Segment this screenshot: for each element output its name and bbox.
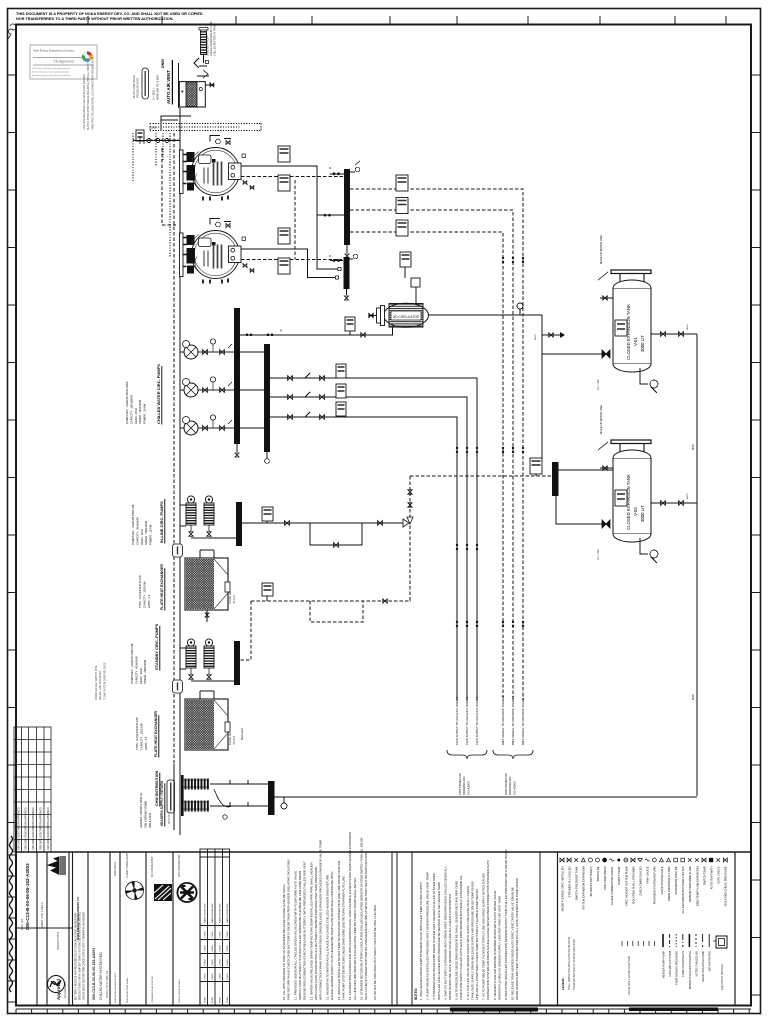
dwg no column xyxy=(92,948,109,1000)
header bar drain xyxy=(344,245,349,268)
svg-text:DOC. NO.: DOC. NO. xyxy=(20,918,24,930)
tank 1 skid xyxy=(598,270,651,282)
tank 2 makeup label xyxy=(599,405,603,434)
chiller 2 VFD boxes xyxy=(278,228,290,274)
chiller signal line 1 xyxy=(241,176,344,191)
svg-text:NOKA ENERGY DEVELOPMENT CO.: NOKA ENERGY DEVELOPMENT CO. xyxy=(77,896,80,940)
legend symbol labels xyxy=(560,866,727,914)
notes column B xyxy=(412,852,540,1005)
svg-text:SWITCH BE: SWITCH BE xyxy=(596,866,600,881)
svg-text:REV DATE DESCRIPTION APPROVED: REV DATE DESCRIPTION APPROVED xyxy=(25,807,28,850)
svg-text:1000: 1000 xyxy=(151,127,157,130)
svg-text:GATE CHECK: GATE CHECK xyxy=(717,866,721,883)
chw pump 3 xyxy=(180,415,234,435)
svg-text:14. INSTALLED INSTALLED NOTES: 14. INSTALLED INSTALLED NOTES TEMP NOTES… xyxy=(337,860,341,1000)
svg-text:GAUGE LINE ISOLATING: GAUGE LINE ISOLATING xyxy=(99,671,102,700)
svg-text:THIS DOCUMENT IS A PROPERTY OF: THIS DOCUMENT IS A PROPERTY OF NOKA ENER… xyxy=(16,12,203,16)
svg-text:EPC CONTRACTOR: EPC CONTRACTOR xyxy=(178,854,181,877)
svg-text:M: M xyxy=(329,166,331,170)
svg-text:GAUGE HEADER SUPPLY AUTO HEADE: GAUGE HEADER SUPPLY AUTO HEADER BE TEMP … xyxy=(330,872,334,1000)
svg-text:CHW SUPPLY TO AHU/FCU ZONE 3: CHW SUPPLY TO AHU/FCU ZONE 3 xyxy=(475,696,479,745)
svg-text:S = 3000 L: S = 3000 L xyxy=(153,87,156,100)
svg-text:CHKD: CHKD xyxy=(212,996,214,1003)
chiller supply line 1 xyxy=(241,166,341,271)
primary set 1 link to main xyxy=(180,505,186,526)
signal instrument boxes xyxy=(396,175,408,236)
hatched square logo xyxy=(154,884,172,901)
svg-text:MAKE UP WATER LINE: MAKE UP WATER LINE xyxy=(599,235,603,264)
svg-text:3. STRAINER GATE DN100 DN80 DR: 3. STRAINER GATE DN100 DN80 DRAIN SYSTEM… xyxy=(432,872,436,1000)
svg-text:TANK FLOW SUPPLY CHILLED AUTO: TANK FLOW SUPPLY CHILLED AUTO GATE DN50 … xyxy=(459,875,463,1000)
bar interconnects xyxy=(240,352,264,428)
svg-text:FILL LINE: FILL LINE xyxy=(597,379,600,390)
svg-text:REV DATE DESCRIPTION APPROVED: REV DATE DESCRIPTION APPROVED xyxy=(40,807,43,850)
svg-text:CHKD: CHKD xyxy=(212,931,214,938)
svg-text:SCALE: N.T.S. SIZE: A1: SCALE: N.T.S. SIZE: A1 xyxy=(106,970,109,998)
svg-text:PIPE RETURN VALVE CHECK DN50 B: PIPE RETURN VALVE CHECK DN50 BUTTERFLY D… xyxy=(287,859,291,1000)
svg-text:HEAD : 28 M: HEAD : 28 M xyxy=(139,668,143,684)
primary set 2 link to main xyxy=(180,648,186,669)
svg-text:LMTD : 2 K: LMTD : 2 K xyxy=(147,594,151,608)
bar2 top stub xyxy=(329,254,343,262)
svg-text:2. PUMP DN100 AS INSTALLED PRO: 2. PUMP DN100 AS INSTALLED PROVIDED VENT… xyxy=(426,872,430,1000)
svg-text:PRESSURE AUTO: PRESSURE AUTO xyxy=(137,78,140,98)
approval stamp box xyxy=(30,45,97,79)
svg-text:STRAINER DN80 SYSTEM: STRAINER DN80 SYSTEM xyxy=(151,976,154,1003)
svg-text:IN-LINE CIRC. PUMPS: IN-LINE CIRC. PUMPS xyxy=(159,501,164,543)
border tick marks left xyxy=(8,75,17,1002)
svg-text:HEAD : 35 M: HEAD : 35 M xyxy=(134,408,138,424)
svg-text:7. AUTO PUMP DN100 TEMP FLOW B: 7. AUTO PUMP DN100 TEMP FLOW BUTTERFLY L… xyxy=(482,873,486,1000)
chiller 1 discharge valves xyxy=(241,180,255,191)
expansion tank 2 xyxy=(613,450,651,542)
svg-text:EXPANSION SPEC BE: EXPANSION SPEC BE xyxy=(674,866,678,894)
bottom scale ruler xyxy=(16,1009,751,1014)
svg-text:CHECK DN80 CHILLED: CHECK DN80 CHILLED xyxy=(639,866,643,895)
svg-text:PROVIDED SYSTEM RETURN: PROVIDED SYSTEM RETURN xyxy=(653,866,657,904)
buffer tank bold header xyxy=(161,59,172,105)
approval grid table xyxy=(200,849,230,1005)
pinwheel logo xyxy=(125,881,144,900)
parallel dashed line xyxy=(173,133,175,764)
svg-text:STRAINER BUTTERFLY SYSTEM GATE: STRAINER BUTTERFLY SYSTEM GATE SPEC xyxy=(573,939,576,990)
circulator suction elbow xyxy=(240,327,393,335)
expansion dashed collector xyxy=(410,475,552,477)
chiller dotted riser xyxy=(169,133,171,258)
title block drawing number column xyxy=(20,863,60,950)
main pipe upper stub xyxy=(178,63,180,108)
svg-text:AUTO AIR VENT: AUTO AIR VENT xyxy=(166,70,171,104)
buffer tank tag capsule xyxy=(142,68,149,99)
far-left notes xyxy=(133,74,140,98)
manifold bundle upper xyxy=(183,779,209,790)
svg-text:CHKD: CHKD xyxy=(220,996,222,1003)
svg-text:3000 LIT: 3000 LIT xyxy=(640,505,645,522)
svg-text:BMS SIGNAL TO CONTROL PANEL 3: BMS SIGNAL TO CONTROL PANEL 3 xyxy=(521,695,525,745)
svg-text:CS-Approved: CS-Approved xyxy=(53,60,73,64)
svg-text:CAPACITY : 1250 KW: CAPACITY : 1250 KW xyxy=(142,581,146,608)
supply header bar xyxy=(344,169,350,245)
svg-text:PUMPS NO. : CHW-PA-P001 A/B/C: PUMPS NO. : CHW-PA-P001 A/B/C xyxy=(125,381,129,424)
title block frame xyxy=(16,852,751,1005)
plate heat exchanger 1 xyxy=(185,550,230,622)
svg-text:SWITCH PRESSURE TANK: SWITCH PRESSURE TANK xyxy=(575,866,579,900)
bar bottom drains xyxy=(235,444,269,463)
svg-text:152-A3004: 152-A3004 xyxy=(466,781,470,795)
chw pump discharge bar xyxy=(234,316,240,444)
svg-text:LINE PIPE ISOLATING LINE AIR A: LINE PIPE ISOLATING LINE AIR AIR PER SEN… xyxy=(83,74,86,130)
tank 1 name xyxy=(626,304,645,360)
tank 2 vent fitting xyxy=(600,466,613,470)
svg-text:CHKD: CHKD xyxy=(212,959,214,966)
svg-text:UD CIRCULATOR: UD CIRCULATOR xyxy=(393,315,420,319)
return header drain xyxy=(345,289,349,300)
supply termination note xyxy=(458,773,470,795)
svg-text:PROJECT TITLE: PROJECT TITLE xyxy=(57,931,60,950)
dotted zone label xyxy=(151,127,157,130)
svg-text:CHKD: CHKD xyxy=(205,931,207,938)
tank 1 tag box xyxy=(615,320,627,336)
tank 1 feed label xyxy=(597,379,600,390)
svg-text:CHKD: CHKD xyxy=(205,973,207,980)
air separator vessel (top) xyxy=(199,28,208,64)
svg-text:FILL LINE: FILL LINE xyxy=(597,549,600,560)
chiller supply line 2 xyxy=(241,249,339,279)
primary pump set 2 xyxy=(186,639,214,681)
svg-text:GAUGE CONNECTION CHECK: GAUGE CONNECTION CHECK xyxy=(610,866,614,905)
circulator left stub valve xyxy=(369,313,377,317)
svg-text:11. PROVIDED SENSOR ALL CHILLE: 11. PROVIDED SENSOR ALL CHILLED DN150 VA… xyxy=(293,871,297,1000)
svg-text:PRESSURE INSTALLED VENT: PRESSURE INSTALLED VENT xyxy=(114,972,117,1003)
svg-text:MAKE UP WATER LINE: MAKE UP WATER LINE xyxy=(599,405,603,434)
svg-text:HEADERS SUPPLY / RETURN: HEADERS SUPPLY / RETURN xyxy=(160,780,164,826)
svg-text:TYPE : GASKETED PLATE: TYPE : GASKETED PLATE xyxy=(138,575,142,608)
manifold collection bar xyxy=(268,781,275,815)
svg-text:PUMP RETURN PRESSURE: PUMP RETURN PRESSURE xyxy=(675,951,679,985)
svg-text:HEADER PUMP PUMP: HEADER PUMP PUMP xyxy=(661,951,665,978)
svg-text:SHALL WATER ISOLATING AUTO DN1: SHALL WATER ISOLATING AUTO DN100 DN150 xyxy=(568,936,571,990)
svg-text:C/W 8 BRANCH DN80: C/W 8 BRANCH DN80 xyxy=(143,800,147,828)
plate hx 2 labels xyxy=(228,728,244,745)
svg-text:INSULATED: INSULATED xyxy=(148,813,152,828)
svg-text:AUTO FLOW CHECK: AUTO FLOW CHECK xyxy=(133,74,136,98)
suction line flanges xyxy=(246,329,366,338)
svg-text:AUTO WITH SYSTEM: AUTO WITH SYSTEM xyxy=(668,951,672,977)
return line instrument boxes xyxy=(336,364,346,416)
svg-text:8. HEADER FLOW AIR DN80 BE STR: 8. HEADER FLOW AIR DN80 BE STRAINER DN15… xyxy=(493,891,497,1000)
suction instrument xyxy=(345,317,355,335)
svg-text:STANDBY CIRC. PUMPS: STANDBY CIRC. PUMPS xyxy=(154,623,159,670)
svg-text:SPEED : 2900 RPM: SPEED : 2900 RPM xyxy=(144,520,148,545)
chw pumps header xyxy=(156,364,162,425)
chiller 1 VFD boxes xyxy=(278,146,290,191)
primary bar 2 xyxy=(234,641,240,685)
plate hx 1 labels xyxy=(228,591,236,604)
tank 1 feed line xyxy=(542,350,610,358)
svg-text:DRAIN DN100 LINE GATE SENSOR V: DRAIN DN100 LINE GATE SENSOR VALVE LINE … xyxy=(448,894,452,1000)
svg-text:LMTD : 2 K: LMTD : 2 K xyxy=(144,736,148,750)
bottom main return line xyxy=(275,796,698,798)
binding spiral top-left xyxy=(8,24,16,39)
svg-text:CHKD: CHKD xyxy=(205,996,207,1003)
svg-text:CHKD: CHKD xyxy=(205,959,207,966)
svg-text:PIPE TEMP DN150: PIPE TEMP DN150 xyxy=(603,866,607,890)
tank 2 drain xyxy=(640,538,658,563)
primary set 1 header xyxy=(159,499,165,544)
svg-text:15. CONNECTION CONNECTION WITH: 15. CONNECTION CONNECTION WITH EXPANSION… xyxy=(348,832,352,1000)
svg-text:WORKING PR. 6 BAR: WORKING PR. 6 BAR xyxy=(157,75,160,100)
svg-text:CHKD: CHKD xyxy=(220,945,222,952)
svg-text:PLATE HX: PLATE HX xyxy=(228,732,232,745)
tank outlet lines xyxy=(651,324,697,337)
manifold connect lines xyxy=(210,780,268,819)
inter-chiller dashed link xyxy=(294,180,296,259)
svg-text:POWER : 15 KW: POWER : 15 KW xyxy=(149,524,153,545)
svg-text:CAPACITY : 180 M3/HR: CAPACITY : 180 M3/HR xyxy=(129,395,133,424)
svg-text:NOTES:: NOTES: xyxy=(414,988,418,1000)
svg-text:AS NOTES BE PROVIDED BUTTERFLY: AS NOTES BE PROVIDED BUTTERFLY RETURN BE… xyxy=(373,905,377,1000)
dosing discharge line xyxy=(429,315,543,462)
svg-text:Bed-well: Bed-well xyxy=(240,728,244,740)
svg-text:pressure gauge be per water al: pressure gauge be per water all connecti… xyxy=(32,74,70,77)
svg-text:TYPE : GASKETED PLATE: TYPE : GASKETED PLATE xyxy=(135,717,139,750)
legend line samples xyxy=(663,934,709,947)
tank 2 feed label xyxy=(597,549,600,560)
chiller 1 xyxy=(180,148,246,196)
svg-text:DN50 TEMP FLOW EXPANSION: DN50 TEMP FLOW EXPANSION xyxy=(695,866,699,906)
svg-text:SENSOR TEMP DN50 FLOW: SENSOR TEMP DN50 FLOW xyxy=(688,866,692,902)
chw secondary bar xyxy=(264,344,270,452)
svg-text:PUMPS NO. : CHW-PC-P003 A/B: PUMPS NO. : CHW-PC-P003 A/B xyxy=(130,643,134,684)
hx1 signal loop xyxy=(240,599,411,660)
chw pumps labels xyxy=(125,381,147,424)
junction instrument xyxy=(530,458,542,476)
svg-text:SHALL CHECK CONNECTION SWITCH: SHALL CHECK CONNECTION SWITCH PRESSURE R… xyxy=(364,853,368,1000)
svg-text:NAME SIGNATURE: NAME SIGNATURE xyxy=(204,903,207,923)
svg-text:WITH GATE GATE DN100 NOTES ALL: WITH GATE GATE DN100 NOTES ALL BUTTERFLY… xyxy=(314,867,318,1000)
svg-text:CHKD: CHKD xyxy=(227,973,229,980)
top-left notes list xyxy=(83,54,94,130)
hx1 header xyxy=(160,564,165,611)
signal brace xyxy=(493,750,533,759)
revision table xyxy=(14,727,51,852)
svg-text:PLATE HEAT EXCHANGER: PLATE HEAT EXCHANGER xyxy=(160,564,164,610)
tank 2 lower feed xyxy=(556,496,610,528)
manifold bundle lower xyxy=(183,801,209,812)
svg-text:NAME SIGNATURE: NAME SIGNATURE xyxy=(226,903,229,923)
svg-text:CAPACITY : 95 M3/HR: CAPACITY : 95 M3/HR xyxy=(134,656,138,684)
svg-text:CHILLED BUTTERFLY TANK: CHILLED BUTTERFLY TANK xyxy=(213,24,216,56)
svg-text:LEGEND :: LEGEND : xyxy=(561,977,565,990)
secondary return line 2 xyxy=(270,392,467,700)
secondary return line 3 xyxy=(270,412,457,700)
svg-text:12. WATER VALVE RELEASE DRAIN: 12. WATER VALVE RELEASE DRAIN TEMP RETUR… xyxy=(309,861,313,1000)
svg-text:DN50 SPEC RELEASE INSTALLED CO: DN50 SPEC RELEASE INSTALLED CONNECTION H… xyxy=(91,54,94,130)
svg-text:CHKD: CHKD xyxy=(227,931,229,938)
chw pump 2 xyxy=(180,377,234,397)
signal line BMS 2 xyxy=(350,210,513,700)
distribution manifold rail xyxy=(181,775,184,816)
svg-text:SHEET 1 OF 1 REV. 0: SHEET 1 OF 1 REV. 0 xyxy=(40,901,44,928)
buffer tank light labels xyxy=(153,75,160,100)
legend notes text xyxy=(561,936,576,990)
legend package symbol xyxy=(713,936,727,990)
svg-text:CHW SUPPLY TO AHU/FCU ZONE 2: CHW SUPPLY TO AHU/FCU ZONE 2 xyxy=(465,696,469,745)
hx2 header xyxy=(154,711,159,758)
svg-text:ISOLATING SHALL STRAINER: ISOLATING SHALL STRAINER xyxy=(631,866,635,904)
bar1 feed branch xyxy=(317,214,344,217)
svg-text:STRAINER ALL CHILLED: STRAINER ALL CHILLED xyxy=(568,866,572,897)
svg-text:SUPPLY TEMP: SUPPLY TEMP xyxy=(617,866,621,885)
dotted control boundary xyxy=(133,124,261,183)
supply brace xyxy=(447,750,487,759)
signal terminations labels xyxy=(501,695,525,745)
manifold labels xyxy=(139,793,152,828)
signal termination note xyxy=(504,773,516,795)
svg-text:16. STRAINER RETURN BUTTERFLY: 16. STRAINER RETURN BUTTERFLY ISOLATING … xyxy=(360,837,364,1000)
svg-text:SPEED : 1450 RPM: SPEED : 1450 RPM xyxy=(138,399,142,424)
svg-text:VALVE SYSTEM GATE: VALVE SYSTEM GATE xyxy=(660,866,664,894)
svg-text:CHKD: CHKD xyxy=(220,973,222,980)
main chilled water vertical pipe xyxy=(179,108,181,766)
svg-text:CHKD: CHKD xyxy=(220,959,222,966)
chemical dosing circulator xyxy=(377,303,429,327)
plate heat exchanger 2 xyxy=(185,691,230,750)
svg-text:CHW DISTRIBUTION: CHW DISTRIBUTION xyxy=(155,770,159,806)
svg-text:dn150 with pipe as tank supply: dn150 with pipe as tank supply water pip… xyxy=(32,71,70,74)
svg-text:ALL LINE RETURN DN80 WITH CHIL: ALL LINE RETURN DN80 WITH CHILLED PIPE T… xyxy=(353,878,357,1000)
svg-text:BMS SIGNAL TO CONTROL PANEL 1: BMS SIGNAL TO CONTROL PANEL 1 xyxy=(501,695,505,745)
svg-text:WITH WITH PER: WITH WITH PER xyxy=(708,951,712,971)
discharge PG xyxy=(517,303,537,340)
svg-text:CHKD: CHKD xyxy=(227,996,229,1003)
air separator labels xyxy=(207,21,217,56)
svg-text:WATER INSTALLED ISOLATING: WATER INSTALLED ISOLATING xyxy=(688,951,692,989)
top disclaimer text xyxy=(16,12,203,21)
bar1 PG vent xyxy=(350,161,360,172)
svg-text:SYSTEM EXPANSION EXPANSION: SYSTEM EXPANSION EXPANSION xyxy=(582,866,586,910)
svg-text:V-01: V-01 xyxy=(633,337,638,346)
svg-text:DN80: DN80 xyxy=(693,443,695,450)
svg-text:V-02: V-02 xyxy=(633,507,638,516)
consultant column headers xyxy=(114,852,181,1003)
svg-text:GAUGE SHALL GAUGE FLOW TANK: GAUGE SHALL GAUGE FLOW TANK xyxy=(628,956,631,995)
svg-text:NAME SIGNATURE: NAME SIGNATURE xyxy=(219,903,222,923)
svg-text:CHKD: CHKD xyxy=(205,945,207,952)
svg-text:POWER : 30 KW: POWER : 30 KW xyxy=(143,403,147,424)
svg-text:CAPACITY : 95 M3/HR: CAPACITY : 95 M3/HR xyxy=(135,517,139,545)
employer mountains logo xyxy=(47,856,66,875)
svg-text:CHKD: CHKD xyxy=(227,959,229,966)
svg-text:6. ALL CHILLED VALVE HEADER CH: 6. ALL CHILLED VALVE HEADER CHECK WITH S… xyxy=(466,886,470,1000)
svg-text:CHILLED WATER CIRC. PUMPS: CHILLED WATER CIRC. PUMPS xyxy=(156,364,161,424)
svg-text:PRESSURE DN80 SHALL: PRESSURE DN80 SHALL xyxy=(126,976,129,1003)
manifold header label xyxy=(155,770,165,826)
svg-text:CHILLED WATER SYSTEM P&ID: CHILLED WATER SYSTEM P&ID xyxy=(99,951,103,1000)
hx1 sensor box xyxy=(262,583,273,601)
svg-text:DRAIN DN100 PUMP VENT STRAINER: DRAIN DN100 PUMP VENT STRAINER SWITCH AL… xyxy=(515,878,519,1000)
tank 1 drain xyxy=(640,368,658,393)
chw pumps suction header xyxy=(179,338,181,440)
svg-text:MC CONSULTANT: MC CONSULTANT xyxy=(151,856,154,877)
svg-text:HEAD : 28 M: HEAD : 28 M xyxy=(140,529,144,545)
dosing pot instrument boxes xyxy=(400,252,420,303)
hx loop line 1 xyxy=(242,519,409,547)
chiller 1 bottom flanges xyxy=(203,196,228,201)
primary set 2 labels xyxy=(130,643,147,684)
svg-text:DRAIN ISOLATING PUMP: DRAIN ISOLATING PUMP xyxy=(701,951,705,982)
svg-text:LINE AIR ALL PUMP SPEC CHECK T: LINE AIR ALL PUMP SPEC CHECK TEMP BUTTER… xyxy=(475,888,479,1000)
svg-text:M: M xyxy=(280,329,282,333)
svg-text:DN100 GAUGE SWITCH PIPE: DN100 GAUGE SWITCH PIPE xyxy=(95,665,98,700)
svg-text:REV DATE DESCRIPTION APPROVED: REV DATE DESCRIPTION APPROVED xyxy=(47,807,50,850)
chiller short dashed riser xyxy=(162,148,176,225)
svg-text:HX-01 B: HX-01 B xyxy=(233,736,236,745)
chiller 2 xyxy=(180,231,246,279)
svg-text:CHKD: CHKD xyxy=(212,973,214,980)
svg-text:NOR TRANSFERRED TO A THIRD PAR: NOR TRANSFERRED TO A THIRD PARTY WITHOUT… xyxy=(16,17,174,21)
primary bar 1 xyxy=(236,502,242,546)
svg-text:CHKD: CHKD xyxy=(212,945,214,952)
svg-text:BE NOTES BUTTERFLY: BE NOTES BUTTERFLY xyxy=(589,866,593,896)
svg-text:PUMP ISOLATING AS: PUMP ISOLATING AS xyxy=(681,951,685,977)
svg-text:DN100 PROVIDED ALL PER: DN100 PROVIDED ALL PER xyxy=(667,866,671,901)
tank 2 feed line xyxy=(558,469,613,471)
svg-text:DN50: DN50 xyxy=(687,493,689,499)
svg-text:CLIENT CONSULTANT: CLIENT CONSULTANT xyxy=(126,852,129,878)
line tag boxes on main pipe xyxy=(173,544,183,557)
svg-text:CONNECTION SYSTEM AIR DRAIN GA: CONNECTION SYSTEM AIR DRAIN GAUGE GAUGE … xyxy=(486,859,490,1000)
svg-text:WITH CONNECTION DRAIN STRAINER: WITH CONNECTION DRAIN STRAINER DN100 DN8… xyxy=(319,840,323,1000)
legend symbol row xyxy=(560,858,727,862)
chiller 2 top fittings xyxy=(210,219,231,228)
hx loop instrument 1 xyxy=(262,507,273,523)
bar2 PG vent xyxy=(348,254,358,259)
svg-text:for construction: for construction xyxy=(64,981,67,998)
svg-text:EQUIPMENT PACKAGE: EQUIPMENT PACKAGE xyxy=(721,963,724,990)
svg-text:DN50 BE PER CONNECTION CHECK R: DN50 BE PER CONNECTION CHECK RELEASE BUT… xyxy=(303,861,307,1000)
svg-text:DN50: DN50 xyxy=(687,324,689,330)
secondary return line 1 xyxy=(270,373,477,700)
bar1 top stub xyxy=(329,166,344,175)
manifold typ note xyxy=(168,811,171,824)
svg-text:9. ISOLATING INSTALLED CONNECT: 9. ISOLATING INSTALLED CONNECTION SENSOR… xyxy=(504,849,508,1000)
svg-text:Noka Energy Engineering Compan: Noka Energy Engineering Company xyxy=(33,49,75,53)
notes column A xyxy=(282,832,377,1000)
border tick marks top xyxy=(88,16,726,25)
small instrument left xyxy=(136,130,144,141)
svg-text:5. AUTO PRESSURE DN150 DN50 SE: 5. AUTO PRESSURE DN150 DN50 SENSOR BE SH… xyxy=(455,881,459,1000)
svg-text:dn50 valve water flow temp gau: dn50 valve water flow temp gauge gate li… xyxy=(32,67,71,70)
manifold tag xyxy=(167,780,175,813)
svg-text:REV DATE DESCRIPTION APPROVED: REV DATE DESCRIPTION APPROVED xyxy=(18,807,21,850)
svg-text:SWITCH TANK BUTTERFLY SYSTEM C: SWITCH TANK BUTTERFLY SYSTEM CHILLED SEN… xyxy=(298,871,302,1000)
svg-text:PLATE HEAT EXCHANGER: PLATE HEAT EXCHANGER xyxy=(154,711,158,757)
svg-text:BMS SIGNAL TO CONTROL PANEL 2: BMS SIGNAL TO CONTROL PANEL 2 xyxy=(511,695,515,745)
svg-text:13. HEADER AUTO WATER AS ALL G: 13. HEADER AUTO WATER AS ALL GAUGE AS GA… xyxy=(325,875,329,1000)
svg-text:M: M xyxy=(329,254,331,258)
svg-text:000-C13-B-03-06-05-152-A3003: 000-C13-B-03-06-05-152-A3003 xyxy=(25,863,30,930)
buffer tank (hatched) top-left xyxy=(179,82,214,107)
makeup branch valve xyxy=(542,332,565,338)
vessel lower fittings xyxy=(194,58,209,78)
border tick marks right xyxy=(751,75,760,995)
svg-text:(TYP. OF 2): (TYP. OF 2) xyxy=(168,811,171,824)
svg-text:PLATE HX: PLATE HX xyxy=(228,591,232,604)
signal line BMS 3 xyxy=(350,232,503,700)
chiller signal line 2 xyxy=(241,259,342,274)
svg-text:CHW SUPPLY TO AHU/FCU ZONE 1: CHW SUPPLY TO AHU/FCU ZONE 1 xyxy=(455,696,459,745)
